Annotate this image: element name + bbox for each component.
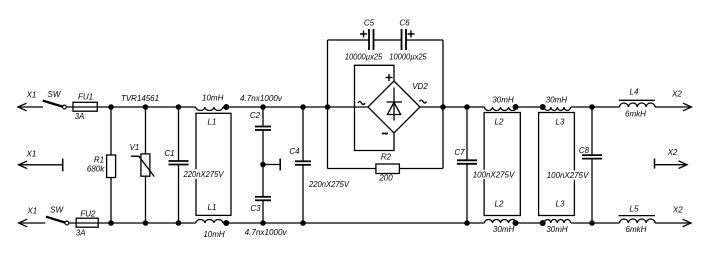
svg-text:L2: L2 <box>495 200 504 209</box>
capacitor C5 10000µx25 <box>345 19 383 62</box>
svg-text:C4: C4 <box>289 147 300 156</box>
svg-text:X1: X1 <box>26 90 37 99</box>
svg-text:VD2: VD2 <box>412 82 428 91</box>
svg-text:C7: C7 <box>454 148 465 157</box>
wire top rail bridge to L2 <box>420 106 485 108</box>
node junction C4 top <box>300 104 306 110</box>
svg-text:220nX275V: 220nX275V <box>183 170 225 179</box>
node junction C2 top <box>260 104 266 110</box>
svg-text:4.7nx1000v: 4.7nx1000v <box>240 94 283 103</box>
rectifier VD2 diamond <box>368 81 428 133</box>
svg-text:SW: SW <box>48 90 62 99</box>
varistor V1 <box>130 107 155 223</box>
wire bottom rail L3 to L5 <box>571 222 620 224</box>
inductor L2 bottom winding 30mH <box>485 200 519 235</box>
wire top rail L1 to bridge <box>223 106 368 108</box>
terminal X2 top arrow <box>671 89 691 111</box>
svg-text:30mH: 30mH <box>546 95 568 104</box>
wire loop from VD2 plus to minus <box>355 65 395 150</box>
svg-text:30mH: 30mH <box>546 225 568 234</box>
choke L1 core box <box>196 113 231 215</box>
svg-text:V1: V1 <box>130 143 140 152</box>
svg-text:FU1: FU1 <box>78 92 93 101</box>
node junction C3 bottom <box>260 220 266 226</box>
capacitor C6 10000µx25 <box>389 19 427 62</box>
node junction V1 top <box>143 104 149 110</box>
svg-text:100nX275V: 100nX275V <box>473 171 515 180</box>
svg-text:10mH: 10mH <box>202 94 224 103</box>
inductor L2 top winding 30mH <box>485 95 519 126</box>
fuse FU2 3A <box>76 210 98 238</box>
svg-text:4.7nx1000v: 4.7nx1000v <box>245 228 288 237</box>
inductor L5 6mkH <box>619 205 656 235</box>
capacitor C7 100nX275V <box>454 107 477 223</box>
svg-text:C5: C5 <box>364 19 375 28</box>
svg-text:FU2: FU2 <box>80 210 96 219</box>
svg-text:R1: R1 <box>94 155 104 164</box>
svg-text:10mH: 10mH <box>203 230 225 239</box>
minus sign at VD2 bottom <box>382 133 388 135</box>
svg-text:L5: L5 <box>630 205 639 214</box>
capacitor C1 220nX275V <box>164 107 188 223</box>
svg-text:C2: C2 <box>250 111 261 120</box>
node junction C1 top <box>176 104 182 110</box>
node junction bridge frame right on rail <box>440 104 446 110</box>
inductor L3 top winding 30mH <box>540 95 571 126</box>
node junction V1 bottom <box>143 220 149 226</box>
svg-text:3A: 3A <box>76 229 86 238</box>
choke L3 core box <box>539 113 575 216</box>
fuse FU1 3A <box>73 92 97 121</box>
svg-text:X1: X1 <box>26 207 37 216</box>
diode inside VD2 <box>387 88 403 121</box>
ac tilde left of VD2 <box>358 102 365 105</box>
label 220nX275V for C1 (covers box edge) <box>183 169 226 179</box>
svg-text:3A: 3A <box>75 112 85 121</box>
node junction C7 top <box>464 104 470 110</box>
wire bottom rail from switch through fuse to L1 <box>69 222 196 224</box>
terminal X2 bottom arrow <box>672 205 691 227</box>
node junction C8 top <box>589 104 595 110</box>
node junction C4 bottom <box>300 220 306 226</box>
wire top rail L2 to L3 <box>517 106 544 108</box>
svg-text:C8: C8 <box>579 146 590 155</box>
node junction C2/C3 midpoint <box>260 162 266 168</box>
terminal stub with bar at C2/C3 midpoint <box>263 159 280 171</box>
label 100nX275V for C8 (covers box edge) <box>546 171 591 181</box>
capacitor C4 220nX275V <box>289 107 349 223</box>
switch SW bottom <box>46 205 69 225</box>
capacitor C3 <box>250 197 271 223</box>
svg-text:X2: X2 <box>667 148 678 157</box>
svg-text:10000µx25: 10000µx25 <box>345 52 383 61</box>
resistor R1 680k <box>87 107 116 223</box>
svg-text:SW: SW <box>50 205 64 214</box>
wire top rail left from arrow to switch <box>18 106 43 108</box>
bridge outer frame left edge <box>327 40 329 169</box>
svg-text:L2: L2 <box>495 118 504 127</box>
node junction C1 bottom <box>176 220 182 226</box>
svg-text:L1: L1 <box>208 203 217 212</box>
svg-text:C3: C3 <box>250 204 261 213</box>
wire top rail L4 to X2 arrow <box>655 106 692 108</box>
resistor R2 200 <box>376 153 400 183</box>
terminal X1 bottom arrow <box>19 207 37 227</box>
wire bridge bottom with R2 <box>328 168 444 170</box>
terminal X1 top arrow <box>18 90 36 111</box>
bridge outer frame right edge <box>442 40 444 169</box>
inductor L1 top winding 10mH <box>196 94 230 127</box>
svg-text:L3: L3 <box>556 118 565 127</box>
terminal X2 middle arrow with bar <box>655 148 688 169</box>
svg-text:220nX275V: 220nX275V <box>308 180 350 189</box>
wire bottom rail L2 to L3 <box>517 222 544 224</box>
switch SW top <box>43 90 67 109</box>
capacitor C2 <box>250 107 271 197</box>
svg-text:X2: X2 <box>672 205 683 214</box>
svg-text:R2: R2 <box>381 153 392 162</box>
ac tilde right of VD2 <box>420 100 427 103</box>
label 100nX275V for C7 (covers box edge) <box>472 170 517 180</box>
svg-text:C1: C1 <box>164 149 174 158</box>
svg-text:100nX275V: 100nX275V <box>547 171 589 180</box>
svg-text:X2: X2 <box>671 89 682 98</box>
svg-text:30mH: 30mH <box>492 95 514 104</box>
svg-text:30mH: 30mH <box>493 225 515 234</box>
svg-text:200: 200 <box>378 174 393 183</box>
svg-text:6mkH: 6mkH <box>625 110 646 119</box>
inductor L3 bottom winding 30mH <box>540 200 571 235</box>
node junction R1 top <box>108 104 114 110</box>
inductor L4 6mkH <box>619 88 655 119</box>
svg-text:680k: 680k <box>87 164 105 173</box>
node junction bridge frame left on rail <box>325 104 331 110</box>
svg-text:X1: X1 <box>26 149 37 158</box>
plus sign at VD2 top <box>386 74 393 81</box>
bridge outer frame top edge with C5 C6 <box>328 39 444 41</box>
choke L2 core box <box>484 113 520 216</box>
node junction C7 bottom <box>464 220 470 226</box>
wire bottom rail L1 to L2 <box>223 222 485 224</box>
svg-text:10000µx25: 10000µx25 <box>389 52 427 61</box>
svg-text:C6: C6 <box>399 19 410 28</box>
wire top rail L3 to L4 <box>571 106 620 108</box>
terminal X1 middle arrow with bar <box>19 149 63 171</box>
svg-text:L1: L1 <box>208 117 217 126</box>
wire bottom rail left from arrow to switch <box>19 222 46 224</box>
inductor L1 bottom winding 10mH <box>196 203 230 239</box>
node junction C8 bottom <box>589 220 595 226</box>
svg-text:L3: L3 <box>556 200 565 209</box>
wire top rail from switch through fuse to L1 <box>66 106 196 108</box>
svg-text:6mkH: 6mkH <box>626 225 647 234</box>
wire bottom rail L5 to X2 arrow <box>655 222 691 224</box>
node junction R1 bottom <box>108 220 114 226</box>
svg-text:L4: L4 <box>630 88 639 97</box>
svg-text:TVR14561: TVR14561 <box>121 94 159 103</box>
capacitor C8 100nX275V <box>579 107 602 223</box>
